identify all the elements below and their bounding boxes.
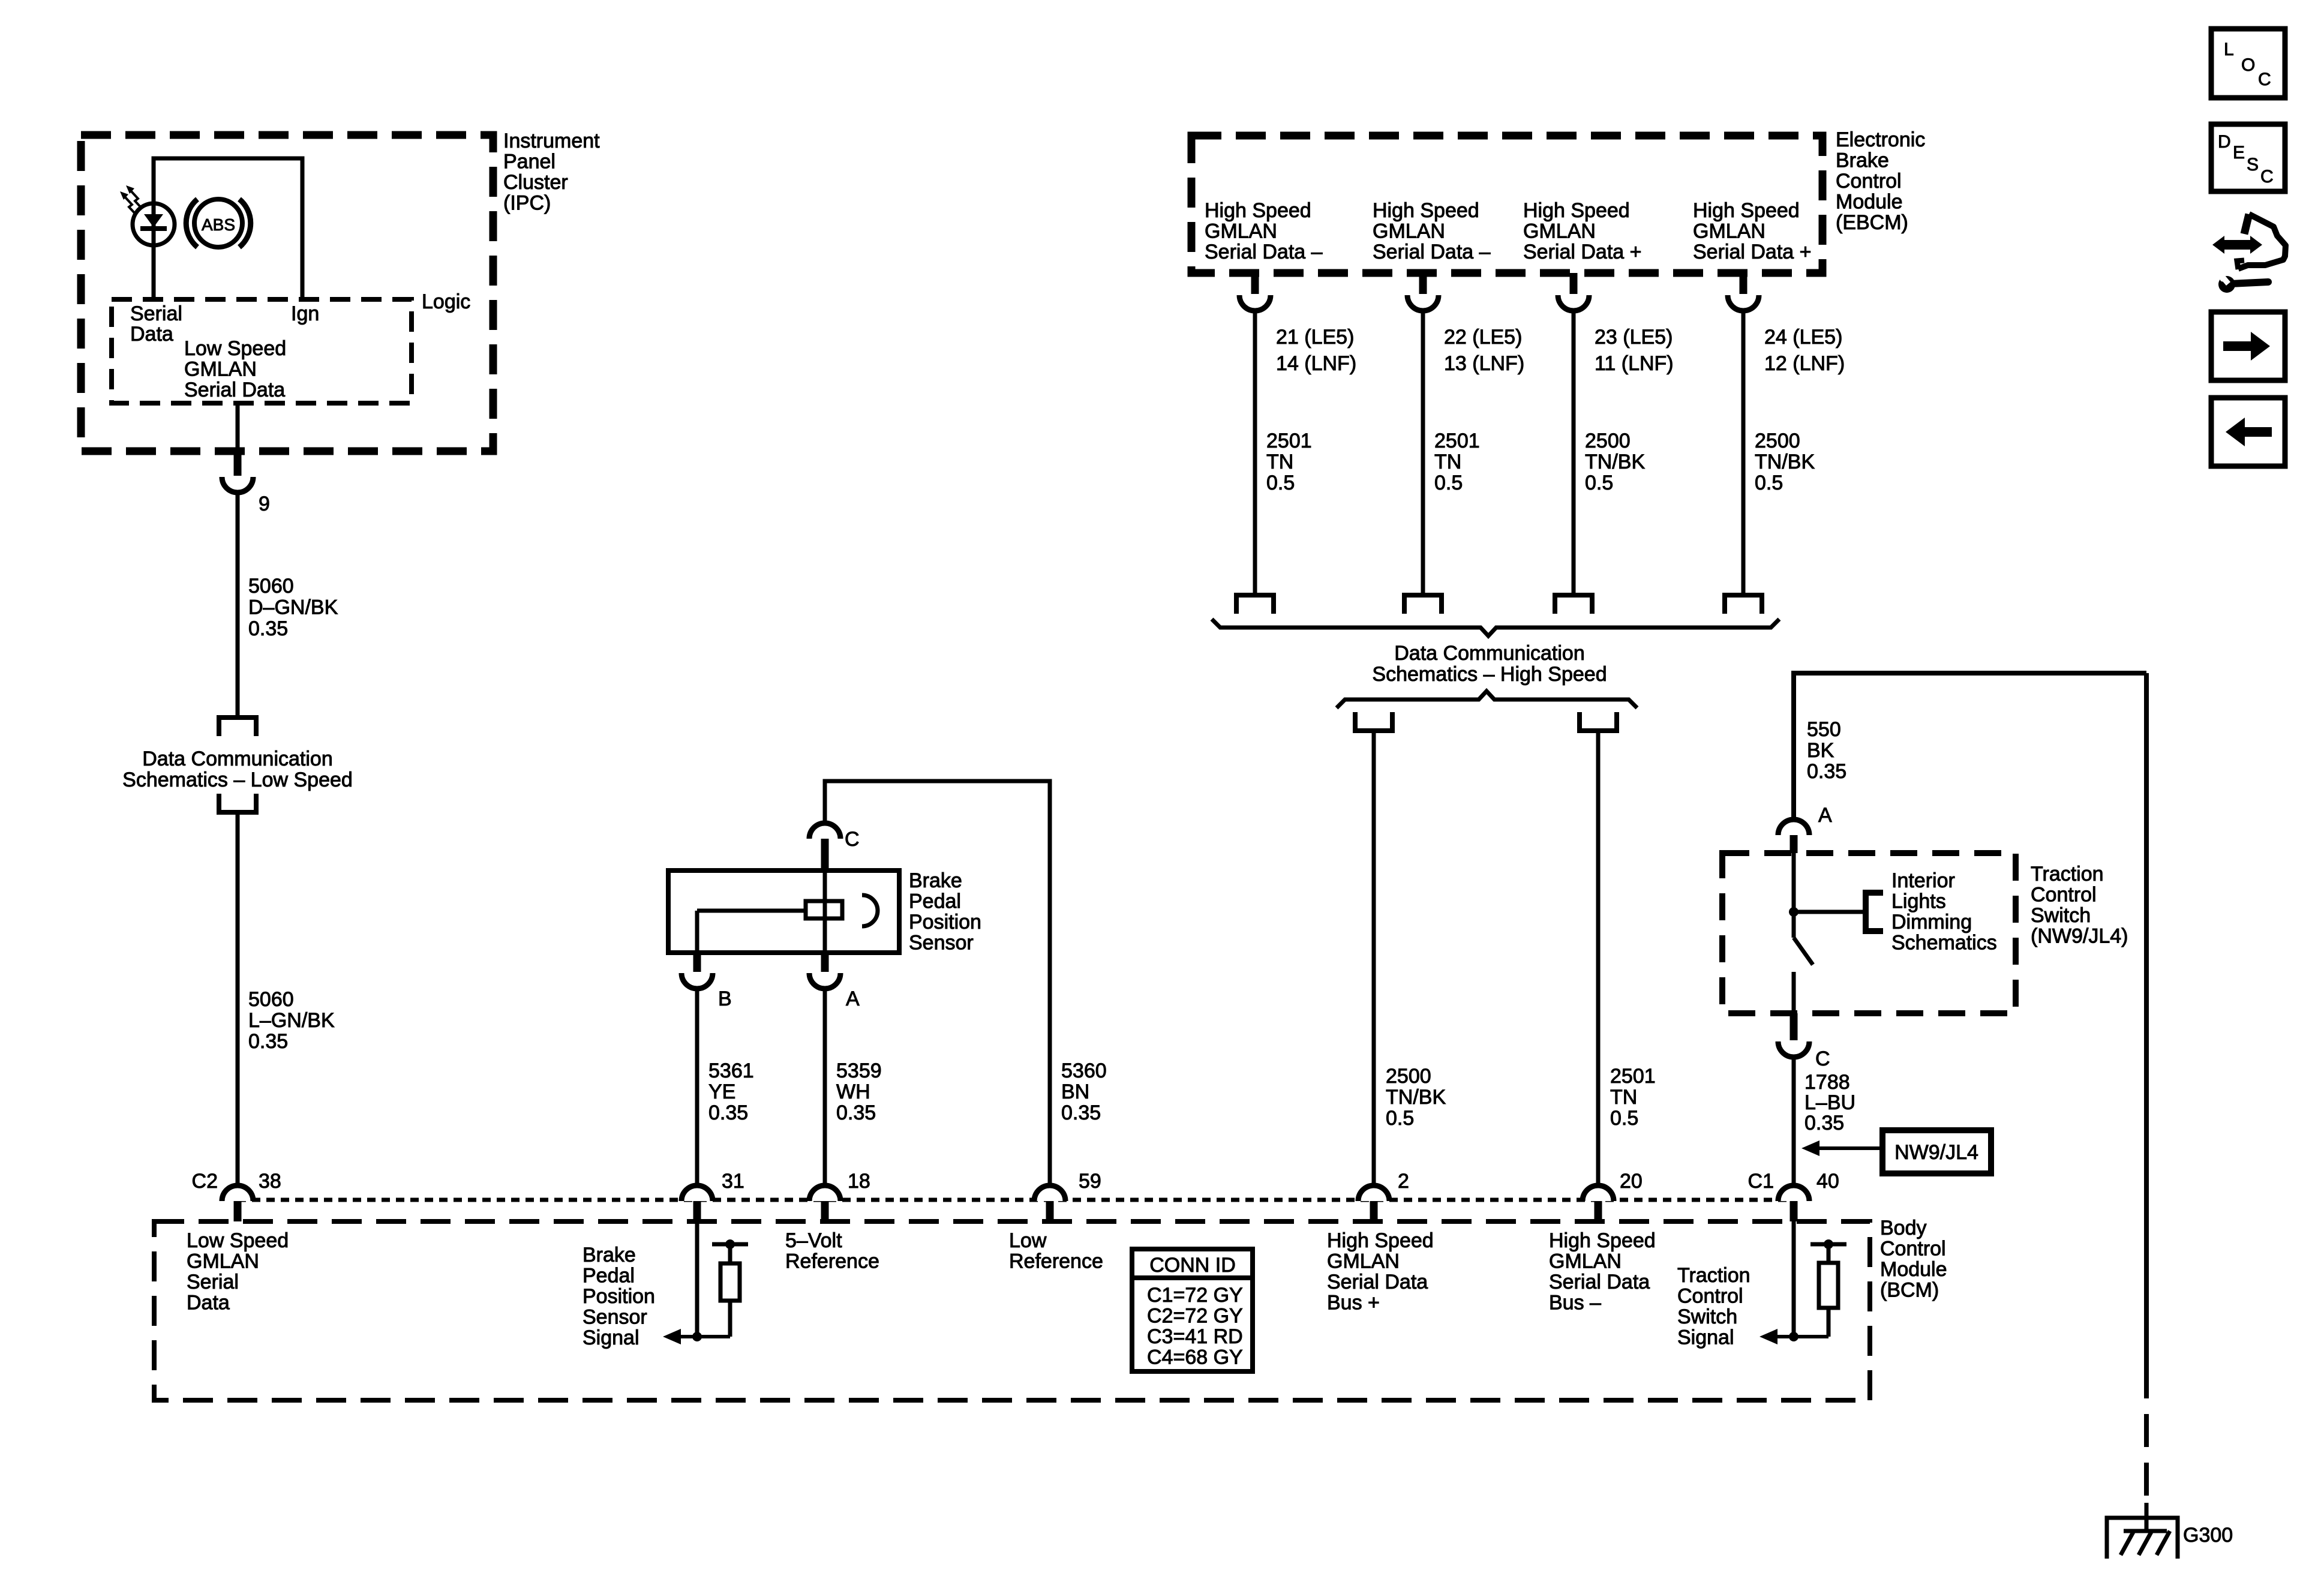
svg-text:5060: 5060 — [248, 575, 294, 598]
svg-text:Data: Data — [130, 323, 173, 346]
svg-text:Signal: Signal — [582, 1326, 639, 1349]
svg-text:GMLAN: GMLAN — [1693, 220, 1765, 243]
svg-text:0.35: 0.35 — [1807, 760, 1846, 783]
svg-text:High Speed: High Speed — [1327, 1229, 1434, 1252]
svg-text:0.5: 0.5 — [1434, 472, 1463, 494]
svg-text:A: A — [1818, 804, 1832, 827]
svg-text:0.5: 0.5 — [1585, 472, 1613, 494]
svg-text:GMLAN: GMLAN — [184, 358, 257, 381]
svg-text:Control: Control — [1677, 1285, 1743, 1308]
svg-text:GMLAN: GMLAN — [1523, 220, 1596, 243]
svg-text:Electronic: Electronic — [1836, 128, 1925, 151]
svg-text:Reference: Reference — [785, 1250, 879, 1273]
svg-text:2501: 2501 — [1266, 430, 1312, 452]
svg-text:B: B — [718, 987, 732, 1010]
svg-text:GMLAN: GMLAN — [187, 1250, 259, 1273]
svg-text:Serial Data –: Serial Data – — [1373, 241, 1491, 263]
svg-text:(BCM): (BCM) — [1880, 1279, 1939, 1302]
svg-text:Position: Position — [909, 911, 981, 933]
svg-text:A: A — [846, 987, 860, 1010]
svg-text:5060: 5060 — [248, 988, 294, 1011]
svg-text:Cluster: Cluster — [503, 171, 568, 194]
svg-text:1788: 1788 — [1804, 1071, 1850, 1094]
svg-text:GMLAN: GMLAN — [1549, 1250, 1622, 1273]
svg-text:Serial Data +: Serial Data + — [1693, 241, 1812, 263]
svg-text:18: 18 — [848, 1170, 870, 1193]
svg-text:Switch: Switch — [2031, 904, 2091, 927]
svg-text:TN: TN — [1610, 1086, 1637, 1109]
svg-text:Lights: Lights — [1891, 890, 1946, 913]
svg-text:12 (LNF): 12 (LNF) — [1764, 352, 1845, 375]
svg-text:C2: C2 — [192, 1170, 218, 1193]
svg-text:Brake: Brake — [582, 1244, 636, 1266]
svg-text:L: L — [2224, 40, 2234, 59]
svg-text:(EBCM): (EBCM) — [1836, 211, 1908, 234]
svg-text:Serial Data: Serial Data — [184, 379, 285, 401]
svg-text:31: 31 — [722, 1170, 744, 1193]
svg-text:Module: Module — [1836, 191, 1903, 214]
svg-text:5–Volt: 5–Volt — [785, 1229, 842, 1252]
svg-text:2500: 2500 — [1755, 430, 1800, 452]
svg-text:2501: 2501 — [1610, 1065, 1656, 1088]
svg-text:Serial: Serial — [187, 1271, 239, 1293]
svg-text:E: E — [2233, 143, 2245, 163]
svg-text:BK: BK — [1807, 739, 1834, 762]
svg-text:Instrument: Instrument — [503, 130, 600, 152]
svg-text:C: C — [2258, 70, 2271, 89]
svg-text:GMLAN: GMLAN — [1205, 220, 1277, 243]
svg-text:GMLAN: GMLAN — [1373, 220, 1445, 243]
svg-text:Control: Control — [1880, 1238, 1946, 1260]
svg-text:C2=72 GY: C2=72 GY — [1147, 1305, 1243, 1328]
svg-text:L–BU: L–BU — [1804, 1091, 1855, 1114]
svg-text:24 (LE5): 24 (LE5) — [1764, 326, 1842, 349]
svg-text:23 (LE5): 23 (LE5) — [1595, 326, 1673, 349]
svg-text:Reference: Reference — [1009, 1250, 1103, 1273]
svg-text:Bus +: Bus + — [1327, 1292, 1380, 1314]
svg-text:Dimming: Dimming — [1891, 911, 1972, 933]
svg-text:(IPC): (IPC) — [503, 192, 551, 215]
svg-text:9: 9 — [259, 493, 270, 515]
svg-text:Data: Data — [187, 1292, 230, 1314]
svg-text:Body: Body — [1880, 1217, 1927, 1239]
svg-text:5361: 5361 — [708, 1059, 754, 1082]
svg-text:Traction: Traction — [1677, 1264, 1750, 1287]
svg-text:Low: Low — [1009, 1229, 1047, 1252]
svg-text:(NW9/JL4): (NW9/JL4) — [2031, 925, 2128, 948]
svg-text:GMLAN: GMLAN — [1327, 1250, 1400, 1273]
svg-text:2: 2 — [1398, 1170, 1409, 1193]
svg-text:59: 59 — [1079, 1170, 1101, 1193]
svg-text:TN/BK: TN/BK — [1585, 451, 1645, 473]
svg-text:TN/BK: TN/BK — [1755, 451, 1815, 473]
svg-text:Low Speed: Low Speed — [184, 337, 286, 360]
svg-text:WH: WH — [836, 1080, 870, 1103]
svg-text:Interior: Interior — [1891, 869, 1955, 892]
svg-text:0.35: 0.35 — [836, 1101, 876, 1124]
svg-text:Pedal: Pedal — [909, 890, 961, 913]
svg-text:O: O — [2241, 55, 2255, 75]
svg-text:C1=72 GY: C1=72 GY — [1147, 1284, 1243, 1307]
svg-text:High Speed: High Speed — [1693, 199, 1800, 222]
svg-text:Schematics: Schematics — [1891, 932, 1997, 954]
svg-text:0.35: 0.35 — [708, 1101, 748, 1124]
svg-text:2501: 2501 — [1434, 430, 1480, 452]
svg-text:TN: TN — [1266, 451, 1293, 473]
svg-text:Position: Position — [582, 1285, 655, 1308]
svg-text:Pedal: Pedal — [582, 1265, 635, 1287]
svg-text:Control: Control — [2031, 884, 2097, 906]
svg-text:0.5: 0.5 — [1386, 1107, 1414, 1130]
svg-text:High Speed: High Speed — [1205, 199, 1311, 222]
svg-text:TN: TN — [1434, 451, 1461, 473]
svg-text:TN/BK: TN/BK — [1386, 1086, 1446, 1109]
svg-text:Serial Data +: Serial Data + — [1523, 241, 1642, 263]
svg-text:0.5: 0.5 — [1266, 472, 1295, 494]
svg-text:C: C — [1815, 1047, 1830, 1070]
svg-text:Logic: Logic — [422, 290, 470, 313]
svg-text:Control: Control — [1836, 170, 1902, 193]
svg-text:5359: 5359 — [836, 1059, 882, 1082]
svg-text:11 (LNF): 11 (LNF) — [1595, 352, 1674, 375]
svg-text:Module: Module — [1880, 1258, 1947, 1281]
svg-text:C3=41 RD: C3=41 RD — [1147, 1325, 1243, 1348]
svg-text:Sensor: Sensor — [582, 1306, 647, 1329]
svg-text:2500: 2500 — [1386, 1065, 1431, 1088]
svg-text:YE: YE — [708, 1080, 735, 1103]
svg-text:ABS: ABS — [202, 215, 235, 234]
svg-text:14 (LNF): 14 (LNF) — [1276, 352, 1356, 375]
svg-text:C4=68 GY: C4=68 GY — [1147, 1346, 1243, 1369]
svg-text:0.35: 0.35 — [248, 617, 288, 640]
svg-text:C: C — [845, 828, 860, 851]
svg-text:NW9/JL4: NW9/JL4 — [1894, 1141, 1978, 1164]
svg-text:Low Speed: Low Speed — [187, 1229, 289, 1252]
svg-text:Data Communication: Data Communication — [1394, 642, 1584, 665]
svg-text:C: C — [2260, 167, 2274, 187]
svg-text:20: 20 — [1620, 1170, 1643, 1193]
svg-text:S: S — [2247, 155, 2259, 175]
svg-text:Schematics – Low Speed: Schematics – Low Speed — [122, 769, 353, 791]
svg-text:Brake: Brake — [909, 869, 962, 892]
svg-text:0.35: 0.35 — [1804, 1112, 1844, 1134]
svg-text:0.5: 0.5 — [1755, 472, 1783, 494]
svg-text:C1: C1 — [1748, 1170, 1774, 1193]
svg-text:Sensor: Sensor — [909, 932, 974, 954]
svg-text:550: 550 — [1807, 718, 1841, 741]
svg-text:Serial Data –: Serial Data – — [1205, 241, 1323, 263]
svg-text:Signal: Signal — [1677, 1326, 1734, 1349]
svg-text:Data Communication: Data Communication — [142, 748, 332, 770]
svg-text:D–GN/BK: D–GN/BK — [248, 596, 338, 619]
svg-text:5360: 5360 — [1061, 1059, 1107, 1082]
svg-text:13 (LNF): 13 (LNF) — [1444, 352, 1524, 375]
svg-text:Serial: Serial — [130, 302, 182, 325]
svg-text:Traction: Traction — [2031, 863, 2104, 885]
svg-text:Schematics – High Speed: Schematics – High Speed — [1372, 663, 1607, 686]
svg-text:38: 38 — [259, 1170, 281, 1193]
svg-text:2500: 2500 — [1585, 430, 1631, 452]
svg-text:Switch: Switch — [1677, 1305, 1737, 1328]
svg-text:BN: BN — [1061, 1080, 1089, 1103]
svg-text:0.35: 0.35 — [1061, 1101, 1101, 1124]
svg-text:0.35: 0.35 — [248, 1030, 288, 1053]
svg-text:0.5: 0.5 — [1610, 1107, 1638, 1130]
svg-text:CONN ID: CONN ID — [1149, 1254, 1236, 1277]
svg-text:22 (LE5): 22 (LE5) — [1444, 326, 1522, 349]
svg-text:Panel: Panel — [503, 151, 556, 173]
svg-text:Bus –: Bus – — [1549, 1292, 1601, 1314]
svg-text:Brake: Brake — [1836, 149, 1889, 172]
svg-text:G300: G300 — [2183, 1524, 2233, 1547]
svg-text:Ign: Ign — [291, 302, 319, 325]
svg-text:40: 40 — [1816, 1170, 1839, 1193]
svg-text:L–GN/BK: L–GN/BK — [248, 1009, 335, 1032]
svg-text:Serial Data: Serial Data — [1327, 1271, 1428, 1293]
svg-text:21 (LE5): 21 (LE5) — [1276, 326, 1354, 349]
svg-text:Serial Data: Serial Data — [1549, 1271, 1650, 1293]
svg-text:High Speed: High Speed — [1549, 1229, 1656, 1252]
svg-text:High Speed: High Speed — [1373, 199, 1479, 222]
svg-text:High Speed: High Speed — [1523, 199, 1630, 222]
svg-text:D: D — [2218, 132, 2231, 152]
